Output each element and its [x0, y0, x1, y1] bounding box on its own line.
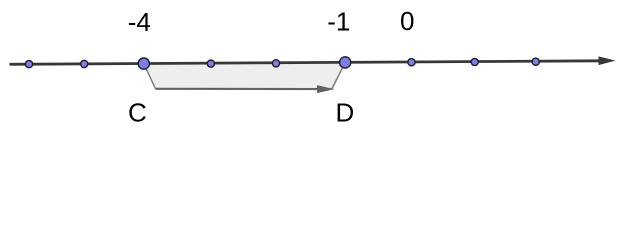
point at 0	[408, 59, 415, 66]
svg-text:0: 0	[400, 6, 414, 36]
point at -3	[207, 60, 214, 67]
svg-text:C: C	[128, 97, 147, 127]
vector arrow from C' to D'	[156, 88, 320, 90]
point at 1	[471, 58, 478, 65]
point at 2	[532, 58, 539, 65]
shaded translation region C-D	[144, 62, 345, 89]
svg-text:-4: -4	[128, 7, 151, 37]
svg-text:-1: -1	[327, 6, 350, 36]
point at -2	[272, 60, 279, 67]
number line	[10, 61, 602, 65]
point C at -4	[138, 58, 149, 69]
number line right arrowhead	[599, 56, 616, 65]
edge D to vector head	[332, 62, 346, 89]
point at -6	[25, 61, 32, 68]
svg-text:D: D	[336, 97, 355, 127]
point D at -1	[340, 57, 351, 68]
edge C to vector tail	[144, 64, 156, 89]
vector arrowhead	[317, 85, 335, 93]
point at -5	[81, 60, 88, 67]
